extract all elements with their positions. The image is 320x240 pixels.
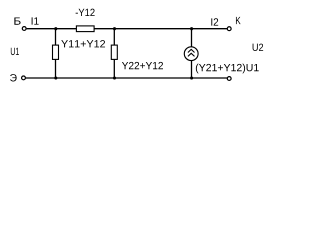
current source arrow chevron lower [188, 53, 195, 56]
label value -Y12 [76, 9, 95, 16]
wire top right segment [94, 28, 227, 30]
label current I2 [211, 18, 218, 25]
label voltage U2 [253, 44, 264, 51]
label source value (Y21+Y12)U1 [196, 64, 259, 74]
junction node bottom R1 [54, 76, 57, 79]
terminal Э circle [22, 76, 26, 80]
junction node top source [190, 27, 193, 30]
resistor Y22+Y12 [111, 45, 117, 59]
wire stub R1 bottom [55, 59, 57, 78]
label terminal Э [10, 74, 17, 81]
wire stub R2 bottom [113, 59, 115, 78]
label voltage U1 [11, 48, 19, 55]
wire bottom [26, 77, 227, 79]
wire stub R2 top [113, 29, 115, 45]
terminal bottom-right circle [227, 77, 231, 81]
terminal Б circle [22, 27, 26, 31]
label terminal K [236, 17, 241, 24]
junction node top R1 [54, 27, 57, 30]
label value Y11+Y12 [61, 40, 105, 47]
current source arrow chevron upper [188, 49, 195, 52]
terminal K circle [227, 27, 231, 31]
label terminal Б [14, 17, 20, 24]
label current I1 [32, 17, 39, 24]
resistor Y11+Y12 [53, 45, 59, 59]
wire stub R1 top [55, 29, 57, 45]
current source circle [184, 47, 198, 61]
resistor -Y12 [76, 26, 94, 32]
wire top left segment [27, 28, 77, 30]
label value Y22+Y12 [122, 62, 163, 69]
wire stub source bottom [191, 61, 193, 79]
junction node bottom R2 [113, 76, 116, 79]
wire stub source top [191, 29, 193, 47]
junction node top R2 [113, 27, 116, 30]
junction node bottom source [190, 76, 193, 79]
